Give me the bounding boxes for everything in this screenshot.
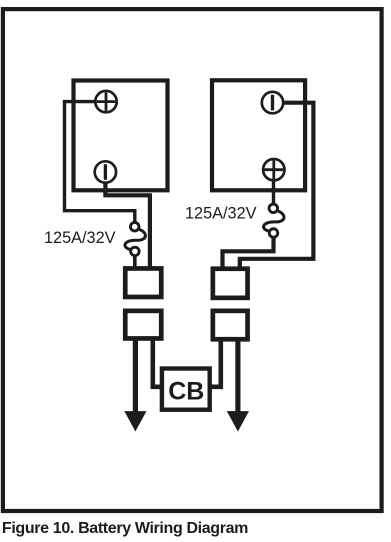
battery B2 (right) (212, 80, 305, 190)
wire from B1 - terminal to left connector block (105, 182, 149, 268)
right connector block lower (213, 311, 248, 339)
wire from fuse F2 to right connector block (223, 238, 274, 268)
svg-text:125A/32V: 125A/32V (185, 205, 257, 223)
wire from B2 - terminal to right connector block (240, 103, 314, 268)
terminal + of B2 (263, 159, 284, 180)
left connector block upper (125, 268, 161, 297)
fuse F1 (left) (125, 222, 145, 255)
wire from B1 + terminal to fuse F1 (65, 102, 135, 222)
svg-text:Figure 10. Battery Wiring Diag: Figure 10. Battery Wiring Diagram (2, 520, 248, 537)
wire left connector to CB (153, 340, 161, 387)
wire right connector to CB (212, 340, 221, 387)
fuse F2 (right) (264, 204, 284, 237)
right output cable with arrow (227, 340, 249, 432)
terminal - of B2 (262, 92, 283, 113)
svg-text:CB: CB (168, 378, 204, 406)
wire from fuse F1 to left connector block (133, 256, 137, 268)
circuit breaker CB (162, 369, 210, 410)
left connector block lower (125, 311, 161, 339)
right connector block upper (213, 269, 248, 298)
svg-text:125A/32V: 125A/32V (44, 229, 116, 247)
battery B1 (left) (74, 81, 168, 191)
left output cable with arrow (124, 340, 146, 432)
wire from B2 + terminal to fuse F2 (272, 180, 275, 204)
terminal - of B1 (95, 161, 116, 182)
terminal + of B1 (95, 91, 116, 112)
